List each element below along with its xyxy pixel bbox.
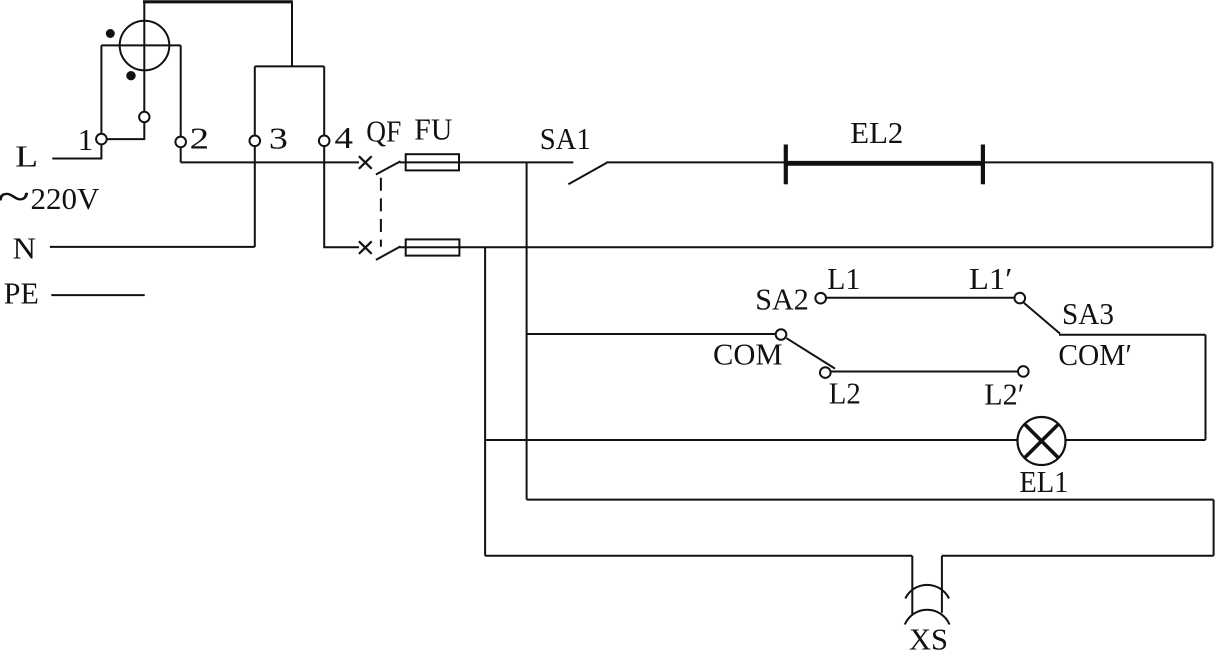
breaker QF upper contact X xyxy=(359,156,372,169)
wire: bracket over terminals 3 and 4 xyxy=(255,65,324,67)
wire: right vertical L row down to N row xyxy=(1211,162,1213,247)
polarity dot upper-left xyxy=(106,29,115,38)
wire: EL2 to right edge xyxy=(985,161,1212,163)
svg-text:L2: L2 xyxy=(829,375,861,410)
wire: terminal 4 down and to QF lower contact xyxy=(324,146,359,247)
wire: L1 to L1' xyxy=(826,297,1015,299)
breaker QF upper blade xyxy=(376,161,401,174)
svg-text:~220V: ~220V xyxy=(0,171,100,222)
breaker QF linkage dashed line xyxy=(380,178,382,247)
svg-text:1: 1 xyxy=(78,122,94,157)
svg-text:PE: PE xyxy=(4,276,39,311)
fuse FU lower body xyxy=(406,239,460,255)
switch SA2 COM terminal circle xyxy=(776,329,787,340)
svg-text:EL2: EL2 xyxy=(850,115,903,150)
terminal 1 circle xyxy=(96,134,107,145)
socket XS lower arc xyxy=(905,610,950,625)
PE stub wire xyxy=(51,294,144,296)
fuse FU upper body xyxy=(406,154,459,170)
svg-text:QF: QF xyxy=(366,113,401,148)
fluorescent lamp EL2 right electrode bar xyxy=(981,145,985,185)
wire: voltage-coil vertical from bar through meter circle xyxy=(143,2,145,112)
wire: current coil right leg down to terminal 2 xyxy=(180,45,182,136)
switch SA2 L2 terminal circle xyxy=(820,367,831,378)
polarity dot lower-left xyxy=(126,71,135,80)
switch SA3 blade L1' to COM' xyxy=(1024,303,1061,334)
wire: terminal 2 down to L row xyxy=(180,147,182,162)
terminal 2 circle xyxy=(175,137,186,148)
terminal 4 circle xyxy=(319,136,330,147)
svg-text:SA1: SA1 xyxy=(540,121,591,156)
wire: L row from terminal 2 to QF upper contact xyxy=(181,161,359,163)
wire: vertical B from L row down (feeds SA2 and socket L) xyxy=(526,162,528,499)
switch SA1 blade xyxy=(568,163,606,184)
wire: vertical A from N row down (feeds EL1 and socket N) xyxy=(484,247,486,556)
svg-text:FU: FU xyxy=(414,112,452,147)
wire: terminal 1 to voltage-coil tap xyxy=(107,122,144,139)
wire: L input stub xyxy=(52,145,101,159)
lamp EL1 cross xyxy=(1025,424,1059,458)
wire: terminal 3 down to N row xyxy=(254,146,256,247)
fluorescent lamp EL2 tube bar xyxy=(786,161,983,166)
terminal 3 circle xyxy=(250,136,261,147)
wire: SA2 feed row xyxy=(527,333,776,335)
svg-text:COM′: COM′ xyxy=(1058,337,1132,372)
svg-text:SA3: SA3 xyxy=(1062,296,1114,331)
wire: QF upper to fuse and on to SA1 xyxy=(400,161,574,163)
socket XS left pin xyxy=(911,556,913,615)
wire: EL1 row from vertical A to lamp xyxy=(485,439,1018,441)
wire: right vertical SA3 down to EL1 row xyxy=(1205,335,1207,440)
wire: bracket leg down to terminal 4 xyxy=(323,66,325,135)
svg-text:L1: L1 xyxy=(827,261,860,296)
wire: EL1 lamp to right vertical xyxy=(1066,439,1206,441)
svg-text:L2′: L2′ xyxy=(984,376,1024,411)
switch SA2 L1 terminal circle xyxy=(815,293,826,304)
switch SA3 L1' terminal circle xyxy=(1015,293,1026,304)
switch SA3 L2' terminal circle xyxy=(1018,366,1029,377)
socket XS right pin xyxy=(941,556,943,613)
svg-text:SA2: SA2 xyxy=(755,282,809,317)
svg-text:L: L xyxy=(15,139,38,174)
lamp EL1 circle xyxy=(1018,417,1066,465)
wire: bracket leg down to terminal 3 xyxy=(254,66,256,135)
breaker QF lower contact X xyxy=(359,241,372,254)
svg-text:4: 4 xyxy=(335,120,354,155)
kWh meter top bar (voltage coil bar) xyxy=(143,0,293,3)
wire: current-coil horizontal through meter circle xyxy=(101,44,180,46)
svg-text:3: 3 xyxy=(269,121,288,156)
wire: SA1 to EL2 xyxy=(606,161,786,163)
socket XS upper arc xyxy=(905,585,949,599)
fluorescent lamp EL2 left electrode bar xyxy=(784,145,788,185)
meter voltage-coil terminal small circle xyxy=(139,112,149,122)
wire: current coil left leg down to terminal 1 xyxy=(100,45,102,133)
svg-text:XS: XS xyxy=(909,621,948,650)
breaker QF lower blade xyxy=(376,246,401,260)
wire: right vertical socket L down xyxy=(1213,500,1215,556)
wire: L2 to L2' xyxy=(831,371,1018,373)
wire: socket row right portion xyxy=(942,555,1214,557)
wire: feeder vertical from top bar to 3-4 bracket xyxy=(291,2,293,67)
wire: SA3 COM' row to right xyxy=(1059,334,1206,336)
wire: socket N row from vertical A to left pin xyxy=(485,555,912,557)
switch SA2 blade COM to L2 xyxy=(787,338,836,368)
svg-text:EL1: EL1 xyxy=(1019,464,1068,499)
svg-text:2: 2 xyxy=(190,120,210,155)
svg-text:COM: COM xyxy=(713,336,783,371)
wire: N input from label to terminal 3 leg xyxy=(50,246,255,248)
svg-text:L1′: L1′ xyxy=(969,261,1013,296)
kWh meter circle P xyxy=(120,21,170,71)
wire: N row from QF lower across to right edge xyxy=(400,246,1213,248)
svg-text:N: N xyxy=(13,230,37,265)
wire: socket L row from vertical B to right edge xyxy=(527,499,1214,501)
